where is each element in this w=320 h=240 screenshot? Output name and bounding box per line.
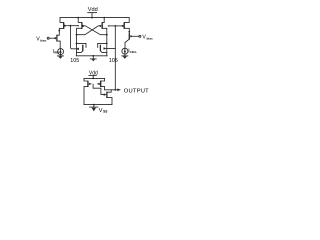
- svg-text:bias: bias: [147, 36, 153, 40]
- svg-text:SS: SS: [103, 110, 107, 114]
- svg-text:REF: REF: [54, 50, 60, 54]
- svg-text:V: V: [99, 108, 103, 114]
- svg-text:105: 105: [70, 58, 79, 64]
- svg-text:bias: bias: [40, 38, 46, 42]
- svg-text:105: 105: [109, 58, 118, 64]
- svg-text:CELL: CELL: [130, 50, 138, 54]
- svg-text:OUTPUT: OUTPUT: [124, 88, 149, 94]
